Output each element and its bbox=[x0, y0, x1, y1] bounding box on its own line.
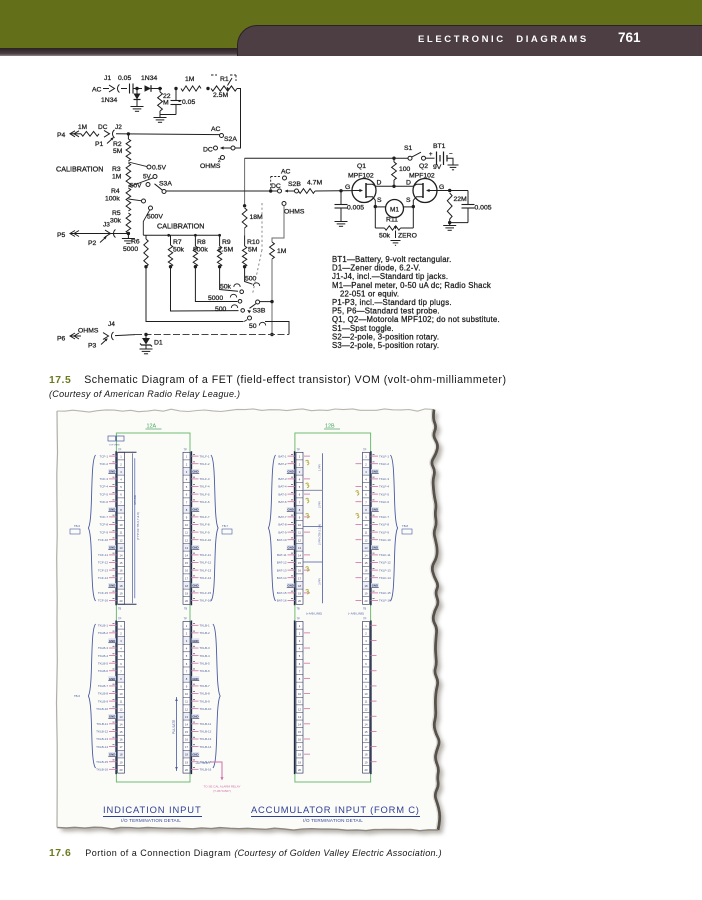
svg-text:TKLF-1: TKLF-1 bbox=[379, 454, 389, 458]
resistor 1M (P4) bbox=[81, 131, 99, 136]
node junction bbox=[392, 157, 395, 160]
ground bbox=[448, 164, 459, 166]
meter M1 bbox=[386, 200, 404, 218]
svg-text:GND: GND bbox=[287, 508, 293, 512]
svg-text:BAT-14: BAT-14 bbox=[277, 576, 287, 580]
svg-text:J3: J3 bbox=[103, 222, 110, 229]
wire (drain) bbox=[376, 185, 413, 187]
svg-text:CALIBRATION: CALIBRATION bbox=[56, 165, 103, 174]
svg-text:BAT-3: BAT-3 bbox=[278, 477, 286, 481]
svg-text:TKLF-7: TKLF-7 bbox=[200, 515, 210, 519]
resistor R8 500k bbox=[194, 235, 196, 246]
svg-text:GND: GND bbox=[372, 470, 378, 474]
svg-text:TP: TP bbox=[363, 448, 367, 452]
svg-text:17: 17 bbox=[185, 576, 188, 580]
svg-text:15: 15 bbox=[185, 561, 188, 565]
svg-text:5V: 5V bbox=[143, 174, 152, 181]
svg-text:16: 16 bbox=[298, 738, 301, 742]
svg-text:TP: TP bbox=[363, 617, 367, 621]
svg-text:R8: R8 bbox=[197, 239, 206, 246]
svg-text:10: 10 bbox=[365, 692, 368, 696]
svg-text:10: 10 bbox=[365, 523, 368, 527]
svg-text:TKLF-12: TKLF-12 bbox=[200, 561, 212, 565]
svg-text:19: 19 bbox=[185, 592, 188, 596]
svg-text:14: 14 bbox=[365, 722, 368, 726]
svg-text:S: S bbox=[406, 197, 411, 204]
svg-text:5M: 5M bbox=[113, 148, 123, 155]
svg-text:10: 10 bbox=[298, 692, 301, 696]
svg-text:19: 19 bbox=[298, 760, 301, 764]
svg-text:20: 20 bbox=[365, 599, 368, 603]
terminal strip TB-8 (accumulator, left) bbox=[296, 452, 303, 604]
svg-text:TP: TP bbox=[118, 448, 122, 452]
node junction bbox=[339, 189, 342, 192]
svg-text:TKLB-10: TKLB-10 bbox=[96, 707, 108, 711]
svg-text:20: 20 bbox=[120, 768, 123, 772]
node junction bbox=[243, 204, 246, 207]
svg-text:12: 12 bbox=[298, 707, 301, 711]
svg-text:J2: J2 bbox=[115, 124, 122, 131]
zener diode D1 bbox=[145, 335, 147, 339]
svg-text:TP: TP bbox=[184, 448, 188, 452]
svg-text:GND: GND bbox=[287, 546, 293, 550]
svg-text:TP: TP bbox=[297, 448, 301, 452]
svg-text:TKLB-15: TKLB-15 bbox=[96, 760, 108, 764]
svg-text:GND: GND bbox=[192, 546, 198, 550]
svg-text:13: 13 bbox=[185, 546, 188, 550]
resistor R10 5M bbox=[244, 235, 246, 246]
svg-text:R4: R4 bbox=[111, 188, 120, 195]
svg-text:R10: R10 bbox=[247, 239, 260, 246]
terminal strip TB-6 (indication, left) bbox=[118, 452, 125, 604]
svg-text:SPARE: SPARE bbox=[133, 495, 137, 505]
svg-text:R3: R3 bbox=[112, 166, 121, 173]
svg-text:TKLB-16: TKLB-16 bbox=[200, 768, 212, 772]
svg-text:TKLF-4: TKLF-4 bbox=[379, 485, 389, 489]
svg-text:GND: GND bbox=[109, 508, 115, 512]
svg-text:50k: 50k bbox=[173, 247, 185, 254]
svg-text:TKLB-8: TKLB-8 bbox=[200, 692, 211, 696]
svg-text:19: 19 bbox=[365, 760, 368, 764]
svg-text:13: 13 bbox=[120, 546, 123, 550]
svg-text:3 PR: 3 PR bbox=[318, 577, 322, 585]
svg-text:2.5M: 2.5M bbox=[213, 92, 228, 99]
node junction bbox=[270, 300, 273, 303]
svg-text:TCF-1: TCF-1 bbox=[100, 454, 109, 458]
svg-text:13: 13 bbox=[365, 715, 368, 719]
svg-text:TCF-11: TCF-11 bbox=[98, 553, 108, 557]
svg-text:GND: GND bbox=[372, 584, 378, 588]
svg-text:18M: 18M bbox=[250, 214, 264, 221]
wire (J2 line) bbox=[116, 133, 219, 136]
svg-text:20: 20 bbox=[185, 768, 188, 772]
node junction bbox=[135, 87, 138, 90]
svg-text:TP: TP bbox=[297, 617, 301, 621]
svg-text:OHMS: OHMS bbox=[284, 209, 305, 216]
svg-text:TCF-4: TCF-4 bbox=[100, 485, 109, 489]
svg-text:11: 11 bbox=[185, 531, 188, 535]
capacitor 0.005 (Q2 gate) bbox=[467, 191, 469, 205]
svg-text:P2: P2 bbox=[88, 240, 97, 247]
svg-text:TKLB-14: TKLB-14 bbox=[200, 745, 212, 749]
svg-text:TKLF-4: TKLF-4 bbox=[200, 485, 210, 489]
svg-text:TCF-7: TCF-7 bbox=[100, 515, 109, 519]
svg-text:BAT-12: BAT-12 bbox=[277, 561, 287, 565]
svg-text:BAT-13: BAT-13 bbox=[277, 568, 287, 572]
svg-text:17: 17 bbox=[365, 576, 368, 580]
resistor 22M bbox=[159, 89, 161, 93]
capacitor 0.005 (Q1 gate) bbox=[340, 191, 342, 205]
jack J1 bbox=[109, 85, 115, 92]
svg-text:TKLF-6: TKLF-6 bbox=[379, 500, 389, 504]
svg-text:TKLB-6: TKLB-6 bbox=[200, 669, 211, 673]
svg-text:GND: GND bbox=[192, 677, 198, 681]
wire bbox=[134, 88, 143, 90]
resistor 100 bbox=[393, 158, 395, 162]
svg-text:S2A: S2A bbox=[224, 136, 237, 143]
svg-text:13: 13 bbox=[185, 715, 188, 719]
svg-text:GND: GND bbox=[192, 584, 198, 588]
svg-text:PULSATE: PULSATE bbox=[172, 720, 176, 734]
svg-text:19: 19 bbox=[185, 760, 188, 764]
svg-text:16: 16 bbox=[365, 569, 368, 573]
svg-text:S: S bbox=[377, 197, 382, 204]
potentiometer R1 2.5M bbox=[211, 86, 237, 91]
svg-text:BAT-9: BAT-9 bbox=[278, 530, 286, 534]
svg-text:TKLF-9: TKLF-9 bbox=[200, 530, 210, 534]
svg-text:GND: GND bbox=[192, 639, 198, 643]
transistor Q2 gate wire bbox=[437, 190, 469, 192]
svg-text:19: 19 bbox=[365, 592, 368, 596]
svg-text:12: 12 bbox=[365, 538, 368, 542]
wire bbox=[403, 206, 413, 208]
svg-text:BAT-6: BAT-6 bbox=[278, 500, 286, 504]
wire (range bus) bbox=[166, 190, 278, 192]
svg-text:TCF-12: TCF-12 bbox=[98, 561, 108, 565]
svg-text:10: 10 bbox=[185, 523, 188, 527]
svg-text:12B: 12B bbox=[325, 424, 335, 430]
svg-text:S3—2-pole, 5-position rotary.: S3—2-pole, 5-position rotary. bbox=[332, 341, 439, 350]
diode 1N34 (shunt) bbox=[136, 89, 138, 94]
svg-text:GND: GND bbox=[109, 470, 115, 474]
svg-text:TCF-9: TCF-9 bbox=[100, 530, 109, 534]
svg-text:0.05: 0.05 bbox=[182, 99, 195, 106]
svg-text:DC: DC bbox=[98, 124, 108, 131]
svg-text:20: 20 bbox=[120, 599, 123, 603]
svg-text:18: 18 bbox=[120, 584, 123, 588]
svg-text:GND: GND bbox=[192, 753, 198, 757]
svg-text:GND: GND bbox=[287, 584, 293, 588]
svg-text:P4: P4 bbox=[57, 132, 66, 139]
svg-text:(+A/B LINE): (+A/B LINE) bbox=[306, 612, 322, 616]
svg-text:1M: 1M bbox=[185, 76, 195, 83]
svg-text:14: 14 bbox=[185, 554, 188, 558]
svg-text:TKLB-7: TKLB-7 bbox=[200, 684, 211, 688]
svg-text:TKLB-8: TKLB-8 bbox=[98, 692, 109, 696]
svg-text:−: − bbox=[449, 152, 453, 158]
svg-text:OHMS: OHMS bbox=[78, 328, 99, 335]
svg-text:11: 11 bbox=[185, 700, 188, 704]
svg-text:TKLF-5: TKLF-5 bbox=[200, 492, 210, 496]
svg-text:19: 19 bbox=[120, 592, 123, 596]
svg-text:10: 10 bbox=[185, 692, 188, 696]
svg-text:TKLF-2: TKLF-2 bbox=[379, 462, 389, 466]
svg-text:AC: AC bbox=[211, 126, 221, 133]
svg-text:J4: J4 bbox=[108, 321, 115, 328]
node junction bbox=[158, 87, 161, 90]
svg-text:14: 14 bbox=[298, 722, 301, 726]
svg-text:10: 10 bbox=[120, 523, 123, 527]
switch S2B bbox=[270, 177, 272, 190]
svg-text:18: 18 bbox=[365, 584, 368, 588]
svg-text:TKLB-5: TKLB-5 bbox=[98, 661, 109, 665]
svg-text:15: 15 bbox=[298, 561, 301, 565]
svg-text:P5: P5 bbox=[57, 232, 66, 239]
node junction bbox=[412, 205, 415, 208]
svg-text:TB-6: TB-6 bbox=[74, 524, 81, 528]
svg-text:18: 18 bbox=[365, 753, 368, 757]
svg-text:(−A/B LINE): (−A/B LINE) bbox=[348, 612, 364, 616]
resistor 18M bbox=[242, 208, 247, 228]
svg-text:0.005: 0.005 bbox=[347, 205, 364, 212]
svg-text:4.7M: 4.7M bbox=[307, 180, 322, 187]
svg-text:TCF-15: TCF-15 bbox=[98, 591, 108, 595]
terminal strip (lower indication, right) bbox=[183, 622, 190, 774]
resistor R9 2.5M bbox=[219, 235, 221, 246]
svg-text:15: 15 bbox=[120, 730, 123, 734]
svg-text:GND: GND bbox=[109, 546, 115, 550]
svg-text:D: D bbox=[377, 180, 382, 187]
svg-text:1N34: 1N34 bbox=[141, 75, 157, 82]
resistor R3 1M bbox=[126, 163, 131, 186]
svg-text:TCF-6: TCF-6 bbox=[100, 500, 109, 504]
svg-text:20: 20 bbox=[298, 599, 301, 603]
node junction bbox=[206, 87, 209, 90]
svg-text:TCF-14: TCF-14 bbox=[98, 576, 108, 580]
svg-text:10: 10 bbox=[298, 523, 301, 527]
svg-text:TKLF-13: TKLF-13 bbox=[379, 568, 391, 572]
svg-text:BAT-7: BAT-7 bbox=[278, 515, 286, 519]
resistor R6 5000 bbox=[145, 235, 147, 239]
resistor R5 30k bbox=[126, 213, 131, 234]
svg-text:TB: TB bbox=[363, 608, 367, 611]
svg-text:R6: R6 bbox=[131, 239, 140, 246]
svg-text:+AC TKLB-7: +AC TKLB-7 bbox=[195, 761, 210, 765]
svg-text:GND: GND bbox=[109, 677, 115, 681]
wire bbox=[103, 88, 109, 90]
potentiometer R11 50k ZERO bbox=[375, 227, 384, 229]
svg-text:TKLB-1: TKLB-1 bbox=[200, 623, 211, 627]
svg-text:22M: 22M bbox=[454, 196, 468, 203]
svg-text:13: 13 bbox=[298, 715, 301, 719]
svg-text:BAT-8: BAT-8 bbox=[278, 523, 286, 527]
svg-text:9V: 9V bbox=[433, 164, 442, 171]
svg-text:TKLB-1: TKLB-1 bbox=[98, 623, 109, 627]
svg-text:TKLB-4: TKLB-4 bbox=[98, 654, 109, 658]
svg-text:12: 12 bbox=[185, 707, 188, 711]
wire bbox=[447, 158, 453, 165]
svg-text:0.5V: 0.5V bbox=[152, 165, 166, 172]
svg-text:TKLF-12: TKLF-12 bbox=[379, 561, 391, 565]
svg-text:16: 16 bbox=[298, 569, 301, 573]
wire bbox=[272, 206, 284, 243]
svg-text:18: 18 bbox=[298, 584, 301, 588]
svg-text:GND: GND bbox=[109, 753, 115, 757]
svg-text:TKLF-16: TKLF-16 bbox=[200, 599, 212, 603]
cable group outline 12A / 12B bbox=[116, 433, 190, 782]
svg-text:TKLF-15: TKLF-15 bbox=[379, 591, 391, 595]
svg-text:TB-6: TB-6 bbox=[74, 694, 81, 698]
svg-text:TKLB-3: TKLB-3 bbox=[200, 646, 211, 650]
terminal strip TB-9 (accumulator, right) bbox=[363, 452, 370, 604]
wire bbox=[271, 259, 273, 335]
svg-text:M1: M1 bbox=[390, 206, 399, 213]
svg-text:TO SE CAL ALARM RELAY: TO SE CAL ALARM RELAY bbox=[204, 785, 241, 789]
svg-text:P6: P6 bbox=[57, 336, 66, 343]
terminal strip (lower accumulator, right) bbox=[363, 622, 370, 774]
svg-text:13: 13 bbox=[120, 715, 123, 719]
svg-text:17: 17 bbox=[185, 745, 188, 749]
svg-text:14: 14 bbox=[120, 722, 123, 726]
svg-text:TB-8: TB-8 bbox=[402, 524, 409, 528]
resistor 1M bbox=[181, 86, 201, 91]
resistor R7 50k bbox=[170, 235, 172, 245]
svg-text:J1: J1 bbox=[104, 75, 111, 82]
svg-text:TB: TB bbox=[184, 608, 188, 611]
svg-text:GND: GND bbox=[109, 639, 115, 643]
node junction bbox=[269, 189, 272, 192]
svg-text:TCF-3: TCF-3 bbox=[100, 477, 109, 481]
resistor 1M (ohms range) bbox=[270, 242, 275, 259]
svg-text:TB: TB bbox=[118, 608, 122, 611]
svg-text:R5: R5 bbox=[112, 210, 121, 217]
svg-text:TKLB-9: TKLB-9 bbox=[200, 699, 211, 703]
svg-text:TB: TB bbox=[297, 608, 301, 611]
svg-text:TKLB-10: TKLB-10 bbox=[200, 707, 212, 711]
svg-text:11: 11 bbox=[120, 531, 123, 535]
svg-text:15: 15 bbox=[298, 730, 301, 734]
svg-text:17: 17 bbox=[120, 576, 123, 580]
ground bbox=[391, 240, 401, 242]
svg-text:2.5M: 2.5M bbox=[218, 247, 233, 254]
svg-text:500: 500 bbox=[215, 306, 227, 313]
svg-text:20: 20 bbox=[298, 768, 301, 772]
svg-text:R1: R1 bbox=[220, 76, 229, 83]
resistor 22M (Q2 gate) bbox=[447, 193, 452, 219]
svg-text:2 PR: 2 PR bbox=[318, 500, 322, 508]
svg-text:R7: R7 bbox=[173, 239, 182, 246]
ground bbox=[449, 223, 451, 226]
capacitor 0.05 (filter) bbox=[175, 89, 177, 101]
svg-text:16: 16 bbox=[185, 738, 188, 742]
svg-text:GND: GND bbox=[287, 470, 293, 474]
wire (taps) bbox=[128, 162, 147, 167]
svg-text:14: 14 bbox=[120, 554, 123, 558]
braces and TB reference labels bbox=[88, 455, 95, 601]
svg-text:TKLB-13: TKLB-13 bbox=[96, 737, 108, 741]
svg-text:(T-4570-B07): (T-4570-B07) bbox=[213, 789, 231, 793]
svg-text:TKLF-14: TKLF-14 bbox=[379, 576, 391, 580]
svg-text:17: 17 bbox=[365, 745, 368, 749]
svg-text:GND: GND bbox=[192, 715, 198, 719]
svg-text:TKLF-13: TKLF-13 bbox=[200, 568, 212, 572]
svg-text:5000: 5000 bbox=[123, 246, 138, 253]
wire (gate Q1) bbox=[315, 190, 353, 192]
svg-text:11: 11 bbox=[298, 700, 301, 704]
wire bbox=[152, 88, 163, 90]
svg-text:TKLF-9: TKLF-9 bbox=[379, 530, 389, 534]
svg-text:R2: R2 bbox=[113, 141, 122, 148]
ground bbox=[131, 106, 144, 108]
svg-text:11: 11 bbox=[298, 531, 301, 535]
node junction bbox=[144, 265, 147, 268]
svg-text:14: 14 bbox=[365, 554, 368, 558]
svg-text:CALIBRATION: CALIBRATION bbox=[157, 222, 204, 231]
svg-text:5M: 5M bbox=[248, 247, 258, 254]
node junction bbox=[127, 132, 130, 135]
svg-text:TKLF-11: TKLF-11 bbox=[379, 553, 391, 557]
svg-text:12: 12 bbox=[120, 707, 123, 711]
svg-text:BAT-1: BAT-1 bbox=[278, 454, 286, 458]
node junction bbox=[374, 205, 377, 208]
svg-text:14: 14 bbox=[185, 722, 188, 726]
svg-text:18: 18 bbox=[298, 753, 301, 757]
svg-text:15: 15 bbox=[185, 730, 188, 734]
svg-text:TKLB-2: TKLB-2 bbox=[98, 631, 109, 635]
svg-text:TKLF-3: TKLF-3 bbox=[379, 477, 389, 481]
svg-text:17: 17 bbox=[298, 745, 301, 749]
svg-text:BAT-11: BAT-11 bbox=[277, 553, 287, 557]
svg-text:TKLF-7: TKLF-7 bbox=[379, 515, 389, 519]
svg-text:GND: GND bbox=[372, 508, 378, 512]
svg-text:14: 14 bbox=[298, 554, 301, 558]
svg-text:50k: 50k bbox=[379, 233, 391, 240]
svg-text:TKLF-1: TKLF-1 bbox=[200, 454, 210, 458]
svg-text:0.05: 0.05 bbox=[118, 75, 131, 82]
svg-text:2 PR (TB-2,3,4): 2 PR (TB-2,3,4) bbox=[318, 524, 322, 545]
svg-text:TKLB-6: TKLB-6 bbox=[98, 669, 109, 673]
svg-text:12: 12 bbox=[185, 538, 188, 542]
svg-text:Q2: Q2 bbox=[419, 163, 428, 170]
svg-text:TKLF-14: TKLF-14 bbox=[200, 576, 212, 580]
svg-text:TKLB-5: TKLB-5 bbox=[200, 661, 211, 665]
wire (multiplier bus) bbox=[143, 234, 221, 236]
svg-text:5000: 5000 bbox=[208, 295, 223, 302]
svg-text:Q1: Q1 bbox=[357, 163, 366, 170]
capacitor 0.05 (input) bbox=[129, 84, 131, 94]
svg-text:S2B: S2B bbox=[288, 181, 301, 188]
wire bbox=[235, 89, 241, 149]
svg-text:50k: 50k bbox=[220, 284, 232, 291]
svg-text:1N34: 1N34 bbox=[101, 97, 117, 104]
svg-text:100k: 100k bbox=[105, 196, 120, 203]
svg-text:R11: R11 bbox=[386, 217, 398, 224]
svg-text:17: 17 bbox=[120, 745, 123, 749]
svg-text:TKLF-6: TKLF-6 bbox=[200, 500, 210, 504]
svg-text:TKLF-8: TKLF-8 bbox=[200, 523, 210, 527]
svg-text:TKLB-13: TKLB-13 bbox=[200, 737, 212, 741]
svg-text:TCF-5: TCF-5 bbox=[100, 492, 109, 496]
svg-text:1 PR: 1 PR bbox=[318, 463, 322, 471]
switch S3A bbox=[147, 165, 151, 169]
svg-text:OHMS: OHMS bbox=[200, 163, 221, 170]
svg-text:11: 11 bbox=[365, 700, 368, 704]
svg-text:I/O TERMINATION DETAIL: I/O TERMINATION DETAIL bbox=[121, 818, 181, 823]
svg-text:TCF-8: TCF-8 bbox=[100, 523, 109, 527]
svg-text:TKLF-16: TKLF-16 bbox=[379, 599, 391, 603]
svg-text:BAT-2: BAT-2 bbox=[278, 462, 286, 466]
svg-text:TKLB-3: TKLB-3 bbox=[98, 646, 109, 650]
